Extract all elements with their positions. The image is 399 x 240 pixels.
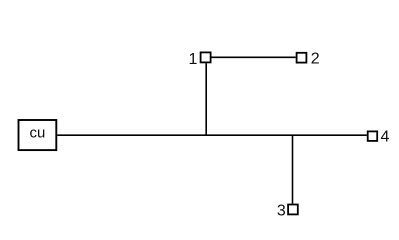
wire: horizontal link from node 1 to node 2 (212, 56, 296, 58)
svg-text:1: 1 (188, 51, 197, 68)
node 4: terminal square (368, 131, 378, 141)
svg-text:2: 2 (311, 51, 320, 68)
svg-text:3: 3 (277, 203, 286, 220)
svg-text:cu: cu (29, 124, 45, 141)
node 2: terminal square (297, 53, 307, 63)
node 1: terminal square (201, 52, 211, 62)
wire: vertical drop from node 1 to main bus (205, 63, 207, 135)
wire: main horizontal bus from cu box to node 4 (57, 134, 367, 136)
wire: vertical drop from main bus to node 3 (292, 135, 294, 203)
svg-text:4: 4 (381, 129, 390, 146)
node 3: terminal square (288, 205, 298, 215)
component cu: control unit box (19, 120, 57, 150)
